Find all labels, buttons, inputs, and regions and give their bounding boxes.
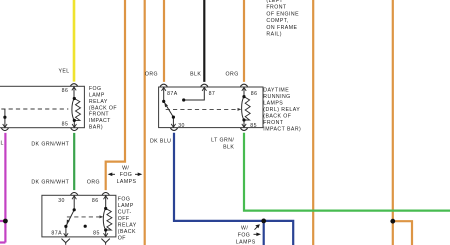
svg-text:RELAY: RELAY <box>118 223 137 229</box>
svg-text:OF: OF <box>118 235 126 241</box>
svg-text:LAMPS: LAMPS <box>236 239 256 245</box>
svg-text:87: 87 <box>209 91 216 97</box>
svg-text:BLK: BLK <box>223 144 234 150</box>
svg-text:COMPT,: COMPT, <box>266 18 288 24</box>
svg-text:RELAY: RELAY <box>89 99 108 105</box>
svg-text:86: 86 <box>92 198 99 204</box>
svg-text:(BACK OF: (BACK OF <box>89 105 117 111</box>
svg-text:FRONT: FRONT <box>263 120 283 126</box>
svg-text:87A: 87A <box>51 231 62 237</box>
svg-text:FRONT: FRONT <box>266 5 286 11</box>
svg-text:LAMP: LAMP <box>118 203 134 209</box>
svg-text:LAMP: LAMP <box>89 93 105 99</box>
svg-text:30: 30 <box>178 123 185 129</box>
svg-text:YEL: YEL <box>58 69 69 75</box>
svg-text:85: 85 <box>93 231 100 237</box>
svg-text:DAYTIME: DAYTIME <box>263 87 289 93</box>
svg-text:IMPACT BAR): IMPACT BAR) <box>263 126 301 132</box>
svg-text:(DRL) RELAY: (DRL) RELAY <box>263 107 300 113</box>
svg-text:OF ENGINE: OF ENGINE <box>266 11 299 17</box>
svg-text:(LEFT: (LEFT <box>266 0 283 4</box>
svg-text:ON FRAME: ON FRAME <box>266 25 297 31</box>
svg-text:OFF: OFF <box>118 216 130 222</box>
svg-text:W/: W/ <box>122 165 129 171</box>
svg-text:ORG: ORG <box>87 179 100 185</box>
svg-text:ORG: ORG <box>226 71 239 77</box>
svg-text:FOG: FOG <box>120 172 133 178</box>
svg-text:DK BLU: DK BLU <box>150 138 171 144</box>
svg-text:FOG: FOG <box>118 197 131 203</box>
svg-text:W/: W/ <box>241 225 248 231</box>
svg-text:(BACK OF: (BACK OF <box>263 113 291 119</box>
svg-text:LT GRN/: LT GRN/ <box>211 138 234 144</box>
svg-text:FOG: FOG <box>89 86 102 92</box>
svg-text:85: 85 <box>62 122 69 128</box>
svg-text:DK GRN/WHT: DK GRN/WHT <box>31 141 69 147</box>
svg-text:FRONT: FRONT <box>89 112 109 118</box>
svg-text:IMPACT: IMPACT <box>89 118 111 124</box>
svg-text:87A: 87A <box>167 91 178 97</box>
svg-text:RAIL): RAIL) <box>266 32 282 38</box>
svg-text:ORG: ORG <box>145 71 158 77</box>
svg-text:RUNNING: RUNNING <box>263 94 290 100</box>
svg-text:86: 86 <box>251 91 258 97</box>
svg-text:(BACK: (BACK <box>118 229 136 235</box>
svg-text:LAMPS: LAMPS <box>263 100 283 106</box>
svg-text:BLK: BLK <box>190 71 201 77</box>
svg-text:86: 86 <box>62 88 69 94</box>
svg-text:DK GRN/WHT: DK GRN/WHT <box>31 179 69 185</box>
svg-text:PPL: PPL <box>0 141 4 147</box>
svg-text:LAMPS: LAMPS <box>117 179 137 185</box>
svg-text:85: 85 <box>250 123 257 129</box>
svg-text:BAR): BAR) <box>89 125 103 131</box>
svg-text:30: 30 <box>58 198 65 204</box>
svg-text:FOG: FOG <box>238 232 251 238</box>
svg-text:CUT-: CUT- <box>118 210 132 216</box>
